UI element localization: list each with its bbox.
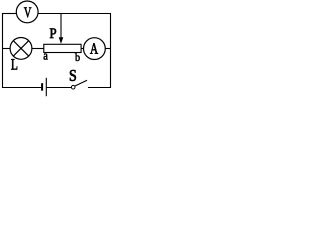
wire rheostat-to-ammeter — [81, 48, 84, 50]
wire lamp-to-rheostat — [32, 48, 44, 50]
wire ammeter-right — [105, 48, 110, 50]
switch S blade — [75, 80, 87, 86]
wire battery-to-switch segment — [47, 87, 72, 89]
ammeter label A — [90, 43, 98, 53]
wire top-left segment — [3, 13, 17, 15]
lamp label L — [11, 59, 17, 69]
switch label S — [70, 70, 76, 81]
wire bottom-left segment — [3, 87, 42, 89]
wire lamp left — [3, 48, 11, 50]
rheostat label P — [50, 29, 56, 38]
lamp X diagonal 1 — [13, 41, 28, 56]
wiper arrowhead — [59, 37, 64, 44]
terminal label b — [75, 53, 80, 61]
wire switch-to-right segment — [88, 87, 111, 89]
terminal label a — [44, 54, 48, 60]
switch S pivot circle — [71, 85, 75, 89]
rheostat P body — [44, 44, 81, 52]
wire right vertical — [110, 13, 112, 88]
battery negative plate (short thick) — [41, 83, 43, 91]
lamp X diagonal 2 — [13, 41, 28, 56]
wire wiper vertical — [60, 14, 62, 39]
battery positive plate (long thin) — [45, 78, 47, 96]
ammeter A1 circle — [84, 38, 106, 60]
voltmeter U-V circle — [16, 1, 38, 23]
voltmeter label V — [24, 7, 31, 17]
wire top-right segment — [38, 13, 111, 15]
wire left vertical — [2, 13, 4, 88]
lamp L1 circle — [10, 38, 32, 60]
